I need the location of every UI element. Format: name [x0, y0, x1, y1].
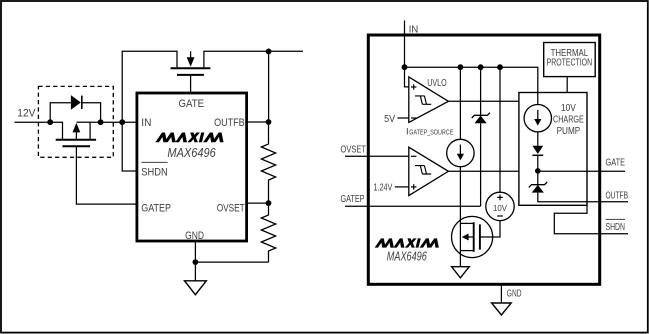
- svg-text:GND: GND: [185, 230, 204, 242]
- op-amp OV comparator: [409, 147, 449, 195]
- diode D2: [532, 146, 543, 154]
- svg-text:OVSET: OVSET: [341, 144, 367, 155]
- wire Q2 gate to GATE pin: [190, 75, 192, 93]
- charge pump block box: [519, 93, 587, 206]
- wire GATEP pin to Z1: [345, 205, 481, 207]
- wire thermal protection to charge pump: [566, 77, 568, 93]
- transistor Q1 body arrow: [75, 132, 77, 140]
- transistor Q2 channel bar: [171, 67, 211, 69]
- svg-text:10V: 10V: [561, 103, 576, 114]
- svg-text:I: I: [406, 126, 409, 137]
- wire body-arrow stub: [77, 121, 91, 123]
- wire rail to I1: [459, 67, 461, 139]
- wire R2 bottom to GND node: [195, 261, 268, 263]
- wire 5V to UVLO minus input: [398, 117, 409, 119]
- transistor Q3 source stub: [460, 250, 473, 252]
- transistor Q3 channel bar: [473, 222, 475, 252]
- wire UVLO output to charge pump: [448, 100, 519, 102]
- MAXIM logo (left IC): [155, 133, 226, 143]
- transistor Q3 internal NFET circle: [452, 216, 493, 257]
- svg-text:IN: IN: [409, 24, 419, 35]
- wire Z1 to GATEP line: [480, 123, 482, 206]
- pin label SHDN with overline: [606, 218, 626, 220]
- wire GATE line: [538, 170, 625, 172]
- op-amp U1 MAX6496 IC box: [137, 93, 247, 241]
- svg-text:UVLO: UVLO: [427, 78, 447, 89]
- svg-text:SHDN: SHDN: [606, 222, 626, 233]
- wire I2 to diode D2: [537, 132, 539, 146]
- wire V1 bottom to FET gate: [480, 221, 500, 237]
- current source I1 GATEP_SOURCE: [447, 139, 474, 166]
- junction dot rail 3: [497, 64, 503, 70]
- junction dot rail 1: [458, 64, 464, 70]
- transistor Q2 body arrow: [190, 51, 192, 58]
- junction dot IN rail: [402, 64, 408, 70]
- svg-text:1.24V: 1.24V: [373, 182, 392, 193]
- svg-text:GND: GND: [507, 288, 522, 299]
- wire OV comparator output: [448, 170, 519, 172]
- svg-text:OUTFB: OUTFB: [214, 117, 245, 129]
- svg-text:GATEP: GATEP: [141, 202, 171, 214]
- junction dot B: [98, 119, 104, 125]
- wire diode branch left riser: [50, 103, 71, 123]
- wire rail to V1 top: [499, 67, 501, 192]
- svg-text:OVSET: OVSET: [217, 202, 245, 214]
- junction dot C: [119, 119, 125, 125]
- svg-text:CHARGE: CHARGE: [553, 115, 584, 126]
- svg-text:IN: IN: [141, 117, 151, 129]
- junction dot GND node: [193, 259, 199, 265]
- resistor R2: [261, 203, 275, 262]
- svg-text:GATEP: GATEP: [341, 194, 365, 205]
- wire OUTFB pin to divider: [247, 121, 269, 123]
- zener diode Z1: [472, 113, 490, 118]
- wire node C up to top rail: [122, 51, 177, 122]
- wire FET drain to IN pin: [90, 122, 136, 139]
- current source I2 charge pump: [524, 105, 551, 132]
- svg-text:12V: 12V: [17, 108, 36, 120]
- junction dot rail 2: [478, 64, 484, 70]
- svg-text:OUTFB: OUTFB: [606, 191, 629, 202]
- wire GND pin down: [194, 240, 196, 280]
- wire IN input: [404, 21, 406, 68]
- wire 1.24V to plus input: [395, 186, 409, 188]
- transistor Q1 gate bar: [63, 145, 91, 147]
- op-amp UVLO comparator: [409, 77, 449, 123]
- zener diode Z1 top wire: [480, 67, 482, 115]
- block outline MAX6496: [368, 35, 599, 284]
- thermal protection box: [544, 43, 596, 77]
- transistor Q2 top NFET right stub: [204, 51, 303, 67]
- junction dot OVSET node: [266, 200, 272, 206]
- wire OVSET pin: [345, 155, 409, 157]
- wire 12V input to FET source: [15, 122, 63, 139]
- svg-text:GATE: GATE: [179, 98, 205, 110]
- svg-text:GATE: GATE: [606, 157, 626, 168]
- resistor R1: [261, 122, 275, 203]
- zener diode Z2: [537, 174, 539, 185]
- svg-text:PROTECTION: PROTECTION: [547, 58, 593, 69]
- voltage source V1 10V: [486, 192, 514, 220]
- svg-text:MAX6496: MAX6496: [387, 250, 427, 264]
- svg-text:PUMP: PUMP: [557, 126, 581, 137]
- svg-text:5V: 5V: [384, 114, 395, 125]
- wire charge pump to SHDN: [554, 205, 628, 233]
- wire node C down to SHDN: [122, 122, 136, 171]
- wire top rail: [405, 67, 538, 105]
- dashed box around Q1+D1: [38, 86, 113, 157]
- wire IN to UVLO plus input: [405, 67, 409, 87]
- ground (right GND): [492, 303, 512, 315]
- junction dot GATE node: [535, 168, 541, 174]
- transistor Q3 drain stub: [460, 222, 473, 224]
- wire GND pin: [500, 285, 502, 304]
- junction dot D on top wire: [266, 49, 272, 55]
- transistor Q3 body arrow: [467, 236, 473, 238]
- MAXIM logo (right): [375, 238, 441, 247]
- diode D1: [71, 95, 81, 110]
- wire I1 down to internal FET: [459, 167, 461, 267]
- transistor Q1 pass PFET channel bar: [56, 139, 96, 141]
- wire diode branch right riser: [82, 103, 101, 123]
- wire Z2 to OUTFB line: [538, 193, 628, 202]
- transistor Q2 gate bar: [177, 74, 204, 76]
- svg-text:SHDN: SHDN: [141, 167, 168, 179]
- transistor Q3 gate bar: [479, 224, 481, 249]
- wire Q1 gate to GATEP: [76, 146, 136, 204]
- junction dot A: [47, 119, 53, 125]
- wire OVSET pin to divider: [247, 202, 269, 204]
- wire D2 to GATE node: [537, 155, 539, 173]
- junction dot OUTFB node: [266, 119, 272, 125]
- svg-text:10V: 10V: [493, 203, 507, 213]
- pin label SHDN with overline: [141, 161, 167, 163]
- ground (under Q3): [452, 267, 470, 278]
- ground (left): [185, 281, 207, 295]
- wire dot D down to OUTFB node: [268, 51, 270, 122]
- svg-text:MAX6496: MAX6496: [167, 145, 216, 160]
- svg-text:GATEP_SOURCE: GATEP_SOURCE: [409, 127, 453, 136]
